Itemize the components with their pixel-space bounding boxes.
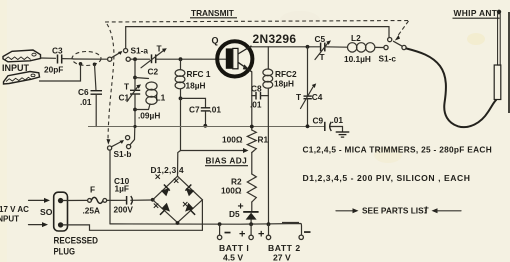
node tank bottom <box>133 108 137 112</box>
svg-text:D5: D5 <box>229 209 240 219</box>
svg-text:18µH: 18µH <box>274 79 294 89</box>
wire rail to S1-b contact <box>130 127 135 145</box>
svg-text:.01: .01 <box>210 105 222 115</box>
svg-text:D1,2,3,4: D1,2,3,4 <box>151 165 185 175</box>
svg-text:INPUT: INPUT <box>0 215 19 224</box>
switch S1-b <box>108 136 132 160</box>
common rail <box>88 126 325 128</box>
capacitor C9 and ground <box>313 115 350 137</box>
capacitor C7 <box>189 105 221 115</box>
node tank on rail <box>133 125 136 128</box>
node collector / C4 top <box>306 45 310 49</box>
capacitor C6 <box>78 87 102 107</box>
svg-text:WHIP ANT: WHIP ANT <box>454 8 498 18</box>
svg-text:C2: C2 <box>148 67 159 77</box>
svg-text:117 V AC: 117 V AC <box>0 205 29 214</box>
svg-text:1µF: 1µF <box>115 184 129 194</box>
diode D3 lower-left <box>161 203 170 212</box>
svg-text:R1: R1 <box>258 135 269 145</box>
wire plug bottom to bridge <box>63 225 202 230</box>
battery terminals <box>217 224 310 240</box>
switch S1-c <box>379 38 407 64</box>
alligator clip lower <box>4 72 40 85</box>
page edge line right <box>508 12 510 113</box>
wire RFC1 to R1 wiper <box>181 98 244 150</box>
fuse F <box>83 185 107 216</box>
node emitter on rail <box>250 125 254 129</box>
node BATT2 plus <box>267 222 271 226</box>
svg-text:+: + <box>239 229 245 241</box>
svg-text:.25A: .25A <box>83 206 101 216</box>
wire fuse to C10 <box>107 199 127 201</box>
trimmer C1 <box>119 82 142 103</box>
svg-text:18µH: 18µH <box>186 81 206 91</box>
svg-text:.09µH: .09µH <box>138 111 160 121</box>
node C4 on rail <box>306 124 310 128</box>
wire clip1 to C3 <box>41 57 56 59</box>
wire RFC2/C8 down to battery rail <box>267 96 269 225</box>
node D5/BATT1 plus <box>249 222 253 226</box>
inductor L1 <box>135 78 166 121</box>
svg-text:C7: C7 <box>189 105 200 115</box>
whip antenna <box>453 8 502 100</box>
svg-text:C4: C4 <box>312 92 323 102</box>
resistor R1 pot <box>222 130 268 153</box>
node bridge bottom on rail <box>176 221 180 225</box>
svg-text:INPUT: INPUT <box>2 63 30 73</box>
ganged switch dashed linkage <box>105 21 408 23</box>
diode D2 upper-right <box>186 188 195 196</box>
wire C1 bottom <box>134 94 136 127</box>
alligator clip upper <box>3 50 41 62</box>
wire emitter down <box>251 72 253 130</box>
diode D5 <box>229 201 259 225</box>
wire S1-a up to transmit rail <box>126 27 389 49</box>
svg-text:T: T <box>320 52 325 62</box>
svg-text:2N3296: 2N3296 <box>253 32 297 46</box>
BIAS ADJ label <box>205 156 248 166</box>
wire C3 to jack <box>62 58 73 60</box>
svg-text:27 V: 27 V <box>273 253 291 262</box>
svg-text:C3: C3 <box>52 46 63 56</box>
switch S1-a <box>108 46 149 62</box>
wire jack pin2 down to C6 <box>95 64 97 90</box>
svg-text:.01: .01 <box>80 97 92 107</box>
svg-text:C1,2,4,5 - MICA TRIMMERS, 25 -: C1,2,4,5 - MICA TRIMMERS, 25 - 280pF EAC… <box>303 145 493 155</box>
svg-text:TRANSMIT: TRANSMIT <box>191 8 234 18</box>
svg-text:+: + <box>258 229 264 241</box>
svg-text:100Ω: 100Ω <box>222 135 243 145</box>
node tank top <box>133 76 137 80</box>
diode D1 upper-left <box>161 188 170 196</box>
svg-text:D1,2,3,4,5 - 200 PIV, SILICON: D1,2,3,4,5 - 200 PIV, SILICON , EACH <box>303 173 471 183</box>
117VAC input arrows <box>0 198 53 227</box>
trimmer C5 <box>315 34 332 62</box>
svg-text:T: T <box>296 92 301 102</box>
wire collector to C5 <box>250 46 320 48</box>
inductor RFC1 <box>175 59 211 98</box>
svg-text:10.1µH: 10.1µH <box>344 54 371 64</box>
capacitor C3 <box>44 46 63 75</box>
svg-text:C9: C9 <box>313 116 324 126</box>
wire bridge top to R1 wiper line <box>178 151 181 177</box>
wire C10 to bridge <box>131 199 152 201</box>
svg-text:Q: Q <box>212 36 219 46</box>
trimmer C2 <box>141 44 167 77</box>
node RFC1 bottom / C7 branch <box>179 97 183 101</box>
diode bridge D1,2,3,4 <box>151 165 203 223</box>
trimmer C4 <box>296 47 323 126</box>
svg-text:200V: 200V <box>114 205 134 215</box>
svg-text:RFC 1: RFC 1 <box>187 69 211 79</box>
TRANSMIT label <box>190 8 237 18</box>
resistor R2 <box>221 174 256 202</box>
node C7 on rail <box>203 124 207 128</box>
wire jack pin to lower clip <box>40 64 81 81</box>
svg-text:SO: SO <box>40 207 53 217</box>
node jack pin 1 <box>79 62 83 66</box>
phone plug dashed outline <box>72 52 101 66</box>
svg-text:.01: .01 <box>250 100 262 110</box>
svg-text:S1-a: S1-a <box>131 46 149 56</box>
svg-text:4.5 V: 4.5 V <box>223 253 243 262</box>
inductor RFC2 <box>263 47 297 96</box>
svg-text:.01: .01 <box>332 115 344 125</box>
node jack pin 2 <box>93 63 97 67</box>
recessed plug SO <box>54 192 99 257</box>
svg-text:F: F <box>90 185 95 195</box>
svg-text:BATT I: BATT I <box>219 243 249 253</box>
wire tank vertical <box>134 59 136 90</box>
whip antenna cable <box>406 48 496 127</box>
svg-text:RFC2: RFC2 <box>275 69 297 79</box>
svg-text:BATT 2: BATT 2 <box>268 243 301 253</box>
svg-text:SEE PARTS LIST: SEE PARTS LIST <box>362 206 429 216</box>
wire C6 to rail <box>95 94 97 126</box>
capacitor C8 <box>250 84 268 110</box>
wire C2 to base <box>156 58 226 60</box>
svg-text:C6: C6 <box>78 87 89 97</box>
see parts list note <box>336 206 461 217</box>
node RFC1 junction <box>179 57 183 61</box>
DC- / battery rail <box>110 224 302 236</box>
node bridge left corner <box>151 198 155 202</box>
svg-text:L1: L1 <box>156 93 166 103</box>
wire C7 to rail <box>205 111 207 126</box>
wire C7 branch <box>181 98 206 107</box>
wire L2 to S1-c <box>375 46 384 48</box>
svg-text:20pF: 20pF <box>44 65 63 75</box>
svg-text:100Ω: 100Ω <box>221 186 242 196</box>
x marks <box>156 175 160 179</box>
svg-text:S1-b: S1-b <box>114 149 132 159</box>
svg-text:BIAS ADJ: BIAS ADJ <box>206 156 248 166</box>
wire through jack to S1-a <box>73 58 108 60</box>
wire S1-b pivot down to DC- rail <box>109 150 111 224</box>
wire R1 to R2 <box>251 153 253 175</box>
svg-text:C5: C5 <box>315 34 326 44</box>
svg-text:RECESSED: RECESSED <box>54 236 99 247</box>
svg-text:S1-c: S1-c <box>379 54 397 64</box>
capacitor C10 <box>114 176 134 215</box>
wire C5 to L2 <box>325 46 348 48</box>
svg-text:T: T <box>124 82 129 92</box>
diode D4 lower-right <box>185 203 194 212</box>
transistor Q1 2N3296 <box>212 32 297 77</box>
wire S1-a output <box>130 58 149 60</box>
svg-text:L2: L2 <box>351 33 361 43</box>
node BATT1 minus <box>218 222 222 226</box>
node base line junction <box>133 57 137 61</box>
wire bridge right corner down to AC return <box>201 200 203 231</box>
wire plug to fuse <box>63 199 88 201</box>
svg-text:PLUG: PLUG <box>54 247 76 258</box>
inductor L2 <box>344 33 375 64</box>
